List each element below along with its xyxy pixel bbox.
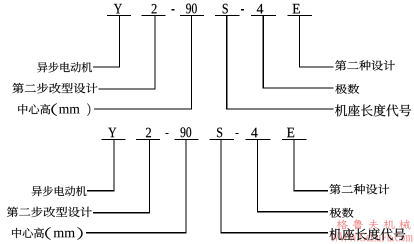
leader line from 2 bottom (149, 140, 150, 213)
watermark 格鲁夫机械 (red) (337, 219, 411, 229)
underline below 90 top (180, 15, 204, 16)
connector to 4 bottom (257, 211, 328, 212)
underline below 4 top (251, 15, 276, 16)
leader line from E top (299, 16, 300, 68)
underline below 90 bottom (174, 139, 198, 140)
leader line from S bottom (221, 140, 222, 234)
code character S bottom (217, 128, 222, 138)
underline below 2 top (142, 15, 166, 16)
underline below Y top (107, 15, 131, 16)
label 第二步改型设计 bottom (7, 207, 92, 217)
leader line from 2 top (155, 16, 156, 89)
code character E bottom (287, 128, 294, 137)
leader line from S top (226, 16, 227, 110)
code character 2 bottom (146, 128, 151, 137)
underline below S bottom (209, 139, 234, 140)
connector to E top (299, 66, 334, 67)
label 中心高 (top) (18, 104, 50, 114)
code character 90 bottom (181, 127, 192, 137)
fullwidth right paren (bottom) (77, 227, 82, 240)
leader line from 4 top (263, 16, 264, 88)
underline below E top (288, 15, 313, 16)
leader line from 90 top (191, 16, 192, 110)
label 第二种设计 top (335, 60, 395, 70)
label 异步电动机 bottom (32, 186, 87, 196)
hyphen 1 bottom (166, 133, 169, 134)
leader line from Y top (119, 16, 120, 68)
leader line from E bottom (293, 140, 294, 192)
connector to S bottom (221, 232, 329, 233)
leader line from 90 bottom (185, 140, 186, 234)
underline below Y bottom (101, 139, 125, 140)
code character 4 top (257, 4, 263, 13)
hyphen 2 bottom (235, 133, 238, 134)
underline below 4 bottom (245, 139, 270, 140)
connector to 2 top (98, 88, 155, 89)
fullwidth left paren (top) (51, 103, 57, 116)
leader line from 4 bottom (257, 140, 258, 212)
label 中心高 (bottom) (12, 228, 44, 238)
connector to 90 top (94, 108, 192, 109)
code character E top (293, 4, 300, 13)
fullwidth left paren (bottom) (45, 227, 51, 240)
code character S top (223, 4, 228, 14)
leader line from Y bottom (113, 140, 114, 192)
connector to Y bottom (87, 190, 114, 191)
svg-text:WWW.GeLuFu.Com: WWW.GeLuFu.Com (330, 230, 414, 244)
label 机座长度代号 top (335, 104, 411, 116)
label 极数 bottom (330, 208, 354, 218)
underline below 2 bottom (136, 139, 160, 140)
fullwidth right paren (top) (87, 103, 90, 116)
label 机座长度代号 bottom (329, 228, 405, 240)
connector to Y top (93, 66, 120, 67)
label 第二种设计 bottom (330, 184, 390, 194)
hyphen 2 top (241, 9, 244, 10)
label mm (bottom) (54, 231, 75, 238)
code character 2 top (152, 4, 157, 13)
underline below E bottom (282, 139, 307, 140)
code character Y bottom (108, 128, 116, 137)
label 第二步改型设计 top (12, 83, 97, 93)
code character 90 top (186, 4, 197, 14)
hyphen 1 top (171, 9, 174, 10)
connector to 4 top (263, 87, 334, 88)
label 极数 top (335, 84, 359, 94)
connector to E bottom (293, 190, 328, 191)
code character Y top (114, 4, 122, 13)
connector to 2 bottom (93, 212, 150, 213)
label 异步电动机 top (37, 62, 92, 72)
underline below S top (215, 15, 240, 16)
label mm (top) (59, 107, 80, 114)
code character 4 bottom (251, 128, 257, 137)
connector to 90 bottom (86, 232, 187, 233)
connector to S top (226, 108, 334, 109)
